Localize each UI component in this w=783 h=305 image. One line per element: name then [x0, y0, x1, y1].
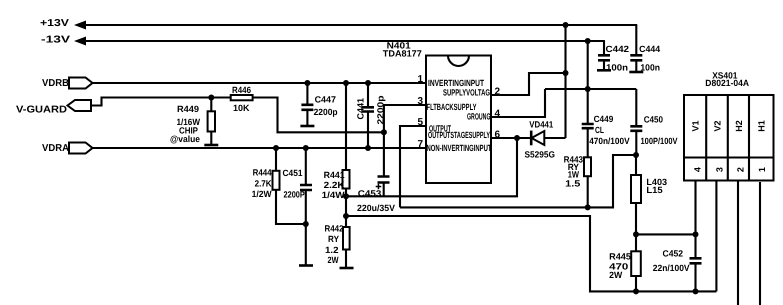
svg-text:1.2: 1.2: [325, 245, 339, 255]
svg-text:L15: L15: [646, 185, 662, 195]
wire feedback to VD441 node: [346, 138, 517, 196]
wire connector pin 1: [759, 182, 761, 305]
pin 3 wire / C453 riser: [384, 105, 426, 177]
svg-text:2200p: 2200p: [314, 107, 338, 117]
capacitor C441: [356, 83, 386, 148]
resistor R443: [564, 154, 591, 207]
resistor R446: [231, 85, 253, 113]
junction VDRA line / R444: [273, 145, 279, 151]
IC N401 TDA8177: [383, 40, 492, 183]
svg-text:OUTPUTSTAGESUPPLY: OUTPUTSTAGESUPPLY: [428, 130, 490, 140]
svg-text:H2: H2: [734, 120, 744, 132]
svg-text:R445: R445: [609, 252, 631, 262]
svg-text:VD441: VD441: [529, 120, 553, 130]
wire connector pin 3: [715, 181, 717, 292]
svg-text:10K: 10K: [233, 103, 250, 113]
svg-text:C453: C453: [358, 189, 382, 199]
junction R441 / feedback line: [343, 193, 349, 199]
wire connector pin 2: [737, 181, 739, 305]
node VDRA: [42, 143, 93, 154]
junction C450 / L403 / output: [633, 152, 639, 158]
capacitor C449: [582, 89, 630, 157]
junction feedback node (pin3 riser / C453): [381, 129, 387, 135]
svg-text:R442: R442: [325, 223, 344, 233]
node V-GUARD: [16, 100, 91, 115]
svg-text:NON-INVERTINGINPUT: NON-INVERTINGINPUT: [427, 143, 492, 153]
junction R442 / ground return: [343, 213, 349, 219]
svg-text:VDRB: VDRB: [42, 78, 69, 89]
svg-text:100P/100V: 100P/100V: [641, 136, 678, 146]
junction VDRB line / C441: [365, 80, 371, 86]
svg-text:S5295G: S5295G: [525, 150, 556, 160]
svg-text:V1: V1: [691, 120, 701, 131]
svg-text:2200P: 2200P: [284, 190, 305, 200]
junction pin2 / +13V riser: [563, 70, 569, 76]
capacitor C450: [630, 89, 677, 155]
svg-text:D8021-04A: D8021-04A: [705, 78, 749, 88]
junction R445 / bottom line: [633, 288, 639, 294]
svg-text:C451: C451: [283, 168, 303, 178]
junction C451 / R444: [303, 221, 309, 227]
svg-text:220u/35V: 220u/35V: [357, 203, 395, 213]
resistor R449: [170, 98, 215, 145]
svg-text:100n: 100n: [640, 63, 660, 73]
wire ground return line: [346, 216, 716, 291]
wire V-GUARD to R446: [91, 98, 231, 106]
wire output line: [400, 155, 636, 207]
resistor R442: [325, 196, 350, 267]
svg-text:V2: V2: [712, 120, 722, 131]
svg-text:C452: C452: [663, 249, 684, 259]
junction +13V rail / VD441 riser: [563, 22, 569, 28]
pin 4 wire: [491, 89, 545, 117]
svg-text:C442: C442: [606, 44, 630, 54]
svg-text:+13V: +13V: [40, 18, 69, 29]
pin 2 wire: [491, 73, 566, 95]
ground R442: [340, 267, 354, 270]
diode VD441: [525, 120, 566, 160]
svg-text:R449: R449: [177, 104, 199, 114]
svg-text:FLTBACKSUPPLY: FLTBACKSUPPLY: [427, 102, 477, 112]
wire VDRA line to pin 7: [93, 147, 427, 149]
svg-text:3: 3: [715, 167, 725, 172]
svg-text:1: 1: [417, 74, 423, 85]
svg-text:@value: @value: [170, 134, 200, 144]
svg-text:-13V: -13V: [41, 35, 70, 46]
svg-text:CL: CL: [595, 125, 604, 135]
pin 6 wire: [491, 137, 531, 139]
svg-text:1.5: 1.5: [565, 179, 580, 189]
wire R446 to feedback node: [253, 98, 384, 133]
svg-text:7: 7: [417, 139, 423, 150]
junction pin6 / feedback riser: [514, 135, 520, 141]
junction -13V rail / supply riser: [585, 38, 591, 44]
capacitor C442: [598, 41, 629, 73]
svg-text:2.2K: 2.2K: [324, 180, 346, 190]
net label -13V: [41, 35, 86, 46]
svg-text:SUPPLYVOLTAG: SUPPLYVOLTAG: [443, 88, 490, 98]
svg-text:R444: R444: [253, 168, 272, 178]
svg-text:RY: RY: [328, 234, 339, 244]
junction C452 / bottom line: [693, 288, 699, 294]
ground C442: [597, 69, 611, 72]
junction VDRB line / R441: [343, 80, 349, 86]
svg-text:2: 2: [736, 167, 746, 172]
wire -13V riser: [587, 41, 589, 89]
junction VDRA line / C451: [303, 145, 309, 151]
svg-text:C447: C447: [315, 94, 336, 104]
svg-text:R441: R441: [324, 170, 345, 180]
junction -13V riser / supply line: [585, 86, 591, 92]
svg-text:2W: 2W: [609, 270, 623, 280]
node VDRB: [42, 78, 93, 89]
svg-text:4: 4: [693, 167, 703, 172]
junction V-GUARD line / R449: [208, 95, 214, 101]
svg-text:C450: C450: [644, 115, 663, 125]
resistor R445: [609, 234, 641, 291]
wire connector pin 4: [694, 181, 696, 235]
wire VDRB line to pin 1: [93, 82, 427, 84]
connector XS401 D8021-04A: [684, 70, 774, 180]
svg-text:TDA8177: TDA8177: [383, 48, 422, 58]
svg-text:1/2W: 1/2W: [252, 189, 272, 199]
capacitor C444: [630, 25, 660, 73]
svg-text:2.7K: 2.7K: [255, 179, 272, 189]
resistor R441: [322, 83, 350, 200]
junction L403 / R445: [633, 231, 639, 237]
svg-text:V-GUARD: V-GUARD: [16, 104, 67, 115]
svg-text:22n/100V: 22n/100V: [653, 263, 690, 273]
ground R449: [204, 144, 218, 147]
svg-text:C449: C449: [594, 114, 614, 124]
ground C451: [299, 264, 313, 267]
svg-text:H1: H1: [757, 120, 767, 132]
svg-text:GROUNG: GROUNG: [467, 112, 491, 122]
capacitor C453: [357, 177, 395, 214]
junction VDRB line / C447: [304, 80, 310, 86]
ground C447: [300, 125, 314, 128]
wire pin4 supply line: [545, 88, 636, 90]
svg-text:2W: 2W: [328, 255, 339, 265]
ground C444: [629, 71, 643, 74]
wire +13V rail: [84, 24, 637, 26]
junction VDRA line / C441: [365, 145, 371, 151]
inductor L403: [631, 155, 667, 234]
wire -13V rail: [84, 40, 605, 42]
pin 5 wire: [400, 126, 426, 207]
capacitor C451: [283, 148, 313, 265]
wire +13V riser: [564, 25, 566, 138]
svg-text:C444: C444: [639, 44, 660, 54]
svg-text:1/4W: 1/4W: [322, 190, 346, 200]
svg-text:INVERTINGINPUT: INVERTINGINPUT: [428, 78, 484, 88]
wire L403 to connector pin4 column: [636, 233, 696, 235]
resistor R444: [252, 148, 306, 224]
junction pin4 column / C452: [693, 231, 699, 237]
capacitor C447: [301, 83, 338, 125]
junction output / R443: [585, 204, 591, 210]
svg-text:C441: C441: [356, 98, 366, 120]
svg-text:R446: R446: [232, 85, 251, 95]
net label +13V: [40, 18, 86, 30]
capacitor C452: [653, 234, 702, 291]
svg-text:1: 1: [757, 167, 767, 172]
svg-text:470n/100V: 470n/100V: [589, 136, 629, 146]
svg-text:VDRA: VDRA: [42, 143, 69, 154]
